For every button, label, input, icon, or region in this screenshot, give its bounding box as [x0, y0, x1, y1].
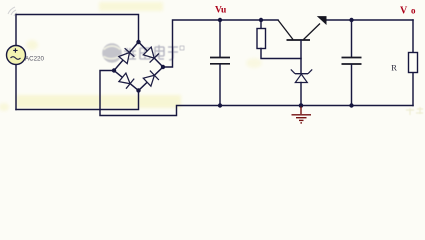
- diode D3 (left vertex to bottom vertex): [119, 73, 134, 89]
- bridge rectifier diamond: [114, 42, 163, 91]
- emitter arrow: [317, 16, 327, 25]
- emitter lead: [304, 24, 321, 40]
- faint yellow watermark band bottom-left: [16, 95, 181, 108]
- capacitor C2: [342, 20, 362, 106]
- collector lead: [278, 20, 293, 40]
- ground: [292, 107, 312, 123]
- watermark CJK text: [124, 45, 178, 60]
- zener diode DZ: [291, 69, 312, 105]
- resistor R1: [257, 20, 301, 59]
- wire: right edge through load R: [412, 20, 414, 106]
- node C2 top junction: [349, 18, 353, 22]
- wire: top-left AC loop top rail: [16, 15, 139, 110]
- svg-text:R: R: [391, 63, 397, 73]
- node Vu junction: [218, 18, 222, 22]
- faint yellow watermark band top: [99, 2, 163, 11]
- watermark arc fragment top-left: [8, 7, 17, 16]
- faint yellow smudge middle: [246, 58, 262, 68]
- faint yellow smudge left: [26, 40, 38, 50]
- AC source V1: [7, 46, 26, 65]
- node C1 bottom junction: [218, 103, 222, 107]
- watermark tm mark: [180, 46, 184, 50]
- node: bridge top vertex: [136, 40, 140, 44]
- diode D4 (bottom vertex to right vertex): [143, 71, 159, 87]
- node C2 bottom junction: [349, 103, 353, 107]
- watermark logo circle: [102, 43, 122, 63]
- svg-text:AC220: AC220: [25, 56, 44, 63]
- node: bridge left vertex: [112, 68, 116, 72]
- diode D1 (left vertex to top vertex): [119, 48, 135, 63]
- svg-text:Vu: Vu: [215, 6, 227, 16]
- diode D2 (top vertex to right vertex): [143, 47, 159, 63]
- capacitor C1: [210, 20, 230, 106]
- wire: bridge minus output to ground rail: [100, 71, 413, 116]
- wire: bridge plus output up to Vu rail: [163, 20, 278, 67]
- faint yellow smudge left edge bottom: [0, 103, 9, 111]
- node: bridge right vertex: [161, 65, 165, 69]
- wire: AC bottom rail: [16, 91, 139, 110]
- node R1 top junction: [259, 18, 263, 22]
- svg-text:o: o: [411, 5, 416, 15]
- wire: base lead: [300, 40, 302, 73]
- wire: emitter rail to Vo: [327, 19, 414, 21]
- transistor Q1: [278, 16, 327, 40]
- base bar: [287, 39, 311, 41]
- node ground junction: [299, 103, 304, 108]
- node: bridge bottom vertex: [136, 88, 140, 92]
- resistor R (load): [409, 53, 418, 73]
- svg-text:V: V: [400, 5, 408, 16]
- watermark fragment bottom-right: [406, 107, 423, 115]
